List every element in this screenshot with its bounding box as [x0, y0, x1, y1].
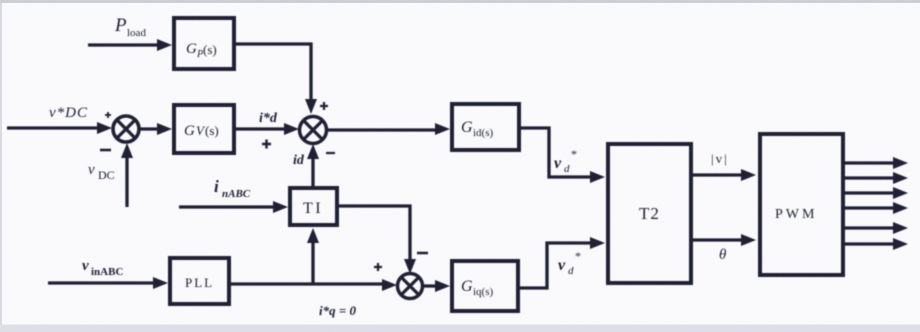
block PWM [760, 134, 843, 275]
summing junction S2 [300, 117, 327, 144]
wire T2 top output to PWM [691, 169, 756, 181]
wire S3 to Giq [423, 280, 450, 292]
bottom gray edge band [0, 325, 920, 332]
label i_ABC [214, 177, 251, 200]
block T1 [290, 188, 337, 225]
label plus sign at S1 [105, 112, 111, 118]
wire GP output to summing junction S2 [234, 44, 317, 114]
block Giq(s) [452, 261, 518, 311]
label v_DC [88, 162, 115, 182]
label i*q = 0 [319, 303, 357, 318]
wire GV to S2 [234, 123, 299, 135]
wire PWM output 1 [845, 157, 908, 169]
wire Gid output to T2 [519, 128, 605, 183]
wire T2 bottom output to PWM [691, 234, 756, 246]
label v*DC [49, 105, 88, 121]
label minus sign bottom-right S2 [326, 152, 335, 154]
summing junction S3 [398, 274, 423, 299]
block GP(s) [174, 18, 234, 69]
wire Giq output to T2 [518, 237, 605, 288]
wire i_ABC input to T1 [179, 201, 288, 213]
block T2 [608, 144, 691, 283]
label plus sign before S3 [374, 263, 382, 271]
block PLL [170, 258, 229, 304]
wire PWM output 6 [845, 238, 908, 250]
wire PWM output 3 [845, 187, 908, 199]
wire PWM output 4 [845, 202, 908, 214]
wire PLL output to S3 [229, 279, 397, 291]
label minus sign above S3 [417, 252, 428, 255]
wire PWM output 2 [845, 172, 908, 184]
label v_inABC [82, 258, 123, 278]
label theta [719, 247, 727, 263]
label vd* bottom [558, 249, 581, 277]
label id [293, 153, 305, 168]
wire T1 right then down to S3 [337, 206, 416, 274]
label i*d [259, 111, 278, 126]
label plus sign left input S2 [262, 140, 271, 149]
wire S2 to Gid [327, 123, 450, 135]
label vd~ top [554, 147, 577, 175]
wire S1 to GV [139, 123, 172, 135]
wire PWM output 5 [845, 222, 908, 234]
label plus sign top input S2 [320, 102, 328, 110]
label minus sign below S1 [100, 149, 111, 152]
wire v_DC feedback into S1 [121, 143, 133, 207]
wire P_load input [88, 39, 172, 51]
block GV(s) [174, 105, 234, 153]
paper noise overlay [0, 0, 1, 1]
label |v| [711, 151, 729, 166]
top gray edge band [0, 0, 920, 3]
wire junction up into T1 bottom [307, 228, 319, 284]
block Gid(s) [452, 104, 519, 150]
wire v_inABC input to PLL [48, 277, 168, 289]
left gray edge band [0, 3, 2, 332]
wire T1 up to S2 [307, 144, 319, 186]
wire v*DC input [7, 122, 112, 134]
label P_load [114, 15, 146, 39]
summing junction S1 [113, 116, 139, 142]
